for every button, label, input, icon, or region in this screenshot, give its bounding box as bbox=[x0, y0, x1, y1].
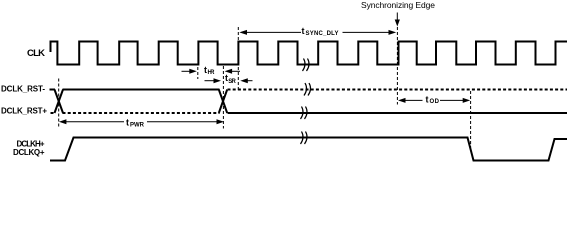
svg-text:CLK: CLK bbox=[27, 48, 45, 59]
measure tOD arrow bbox=[398, 98, 470, 103]
DCLK_RST top trace start stub bbox=[50, 89, 56, 91]
svg-text:DCLKQ+: DCLKQ+ bbox=[13, 148, 45, 157]
svg-text:t: t bbox=[426, 95, 429, 105]
crossover X right at x=223 bbox=[219, 90, 227, 114]
wire CLK waveform bbox=[51, 42, 567, 65]
dashed vertical at right crossover x=223.4 bbox=[222, 66, 224, 129]
break mark on CLK low segment bbox=[303, 59, 310, 72]
svg-text:DCLK_RST-: DCLK_RST- bbox=[1, 85, 45, 94]
measure tPWR arrow bbox=[59, 119, 224, 124]
DCLK_RST bottom trace start dashes bbox=[51, 112, 56, 114]
dashed vertical line at CLK rising edge x=238.3 bbox=[237, 27, 239, 90]
svg-text:t: t bbox=[126, 118, 129, 128]
label tPWR bbox=[126, 118, 145, 129]
svg-text:SR: SR bbox=[228, 79, 236, 85]
svg-text:DCLK_RST+: DCLK_RST+ bbox=[1, 107, 47, 116]
measure tHR arrows bbox=[182, 69, 241, 74]
measure tSR arrows bbox=[205, 78, 253, 83]
svg-text:PWR: PWR bbox=[130, 123, 145, 129]
DCLK_RST- high solid segment (between crossovers, top) bbox=[63, 89, 220, 91]
DCLK_RST+ low dashed segment (between crossovers, bottom) bbox=[63, 112, 220, 114]
DCLK_RST+ solid segment after right crossover (bottom) bbox=[228, 112, 567, 114]
dashed vertical at CLK rising edge x=197.8 (tHR left bound) bbox=[197, 67, 199, 79]
label tHR bbox=[204, 65, 215, 76]
break mark on DCLK_RST+ solid line bbox=[301, 107, 308, 120]
svg-text:t: t bbox=[302, 26, 305, 36]
svg-text:Synchronizing Edge: Synchronizing Edge bbox=[361, 0, 435, 10]
svg-text:SYNC_DLY: SYNC_DLY bbox=[306, 31, 339, 37]
measure tSYNC_DLY arrow bbox=[239, 30, 396, 35]
break mark on DCLK_RST- dashed line bbox=[304, 83, 311, 96]
crossover X left at x=58.7 bbox=[55, 90, 64, 114]
svg-text:HR: HR bbox=[208, 70, 216, 76]
arrow down from Synchronizing Edge bbox=[395, 13, 400, 27]
DCLK_RST- dashed segment after right crossover (top) bbox=[228, 89, 567, 91]
dashed vertical at left crossover x=58.7 bbox=[58, 79, 60, 129]
wire DCLKH+/DCLKQ+ waveform bbox=[50, 138, 567, 161]
break mark on DCLKH+ line bbox=[301, 132, 308, 145]
label tSR bbox=[225, 73, 236, 85]
label tSYNC_DLY bbox=[302, 26, 339, 37]
dashed vertical line at synchronizing edge x=397.4 bbox=[396, 27, 398, 105]
dashed vertical at DCLKH falling edge x=470.6 bbox=[470, 91, 472, 148]
svg-text:OD: OD bbox=[430, 99, 440, 105]
label tOD bbox=[426, 95, 440, 106]
